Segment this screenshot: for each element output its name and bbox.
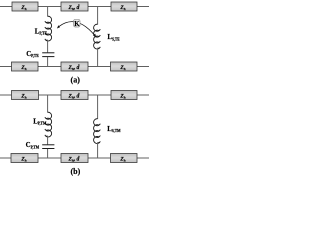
svg-text:Zh,d: Zh,d: [68, 157, 80, 163]
wire shunt1 lower (a): [47, 57, 49, 67]
svg-text:Zh: Zh: [20, 5, 26, 11]
svg-text:Zh: Zh: [119, 5, 125, 11]
wire shunt2 lower (b): [97, 142, 99, 158]
svg-text:(b): (b): [71, 167, 81, 176]
wire shunt1 upper (b): [47, 95, 49, 113]
box Zh bottom-right (a): [111, 62, 138, 71]
box Zh top-right (a): [111, 2, 137, 11]
svg-text:Zh,d: Zh,d: [68, 5, 80, 11]
wire shunt2 upper (a): [97, 7, 99, 25]
svg-text:Zh: Zh: [20, 94, 26, 100]
inductor L_P,TM: [45, 112, 52, 137]
inductor L_S,TM: [94, 119, 101, 144]
coupling arc K: [59, 22, 95, 35]
wire shunt1 middle (b): [47, 136, 49, 145]
K symbol box: [74, 19, 80, 27]
wire shunt1 middle (a): [47, 40, 49, 53]
svg-text:Zh: Zh: [119, 157, 125, 163]
svg-text:Zh,d: Zh,d: [68, 65, 80, 71]
box Zh,d bottom-middle (b): [61, 154, 88, 163]
box Zh bottom-right (b): [111, 154, 138, 163]
svg-text:(a): (a): [71, 76, 81, 85]
capacitor C_P,TE plate1: [42, 52, 54, 54]
box Zh top-left (a): [12, 2, 38, 11]
svg-text:Zh: Zh: [20, 65, 26, 71]
svg-text:K: K: [74, 21, 80, 28]
box Zh bottom-left (b): [11, 154, 38, 163]
svg-text:Zh: Zh: [119, 65, 125, 71]
box Zh bottom-left (a): [12, 62, 39, 71]
wire shunt1 lower (b): [47, 149, 49, 158]
wire top rail circuit a: [0, 6, 149, 8]
capacitor C_P,TM plate2: [42, 148, 54, 150]
capacitor C_P,TM plate1: [42, 144, 54, 146]
inductor L_P,TE: [45, 16, 52, 41]
inductor L_S,TE: [94, 24, 101, 49]
wire shunt1 upper (a): [47, 7, 49, 17]
wire top rail circuit b: [0, 94, 149, 96]
arrowhead left: [57, 25, 60, 28]
arrowhead right: [93, 34, 96, 37]
wire bottom rail circuit a: [0, 66, 149, 68]
wire shunt2 lower (a): [97, 48, 99, 67]
box Zh,d bottom-middle (a): [61, 62, 88, 71]
svg-text:Zh: Zh: [20, 157, 26, 163]
svg-text:Zh: Zh: [119, 94, 125, 100]
box Zh,d top-middle (b): [61, 91, 88, 100]
box Zh top-left (b): [12, 91, 39, 100]
wire bottom rail circuit b: [0, 157, 149, 159]
svg-text:Zh,d: Zh,d: [68, 94, 80, 100]
box Zh top-right (b): [111, 91, 137, 100]
wire shunt2 upper (b): [97, 95, 99, 119]
box Zh,d top-middle (a): [61, 2, 88, 11]
capacitor C_P,TE plate2: [42, 56, 54, 58]
